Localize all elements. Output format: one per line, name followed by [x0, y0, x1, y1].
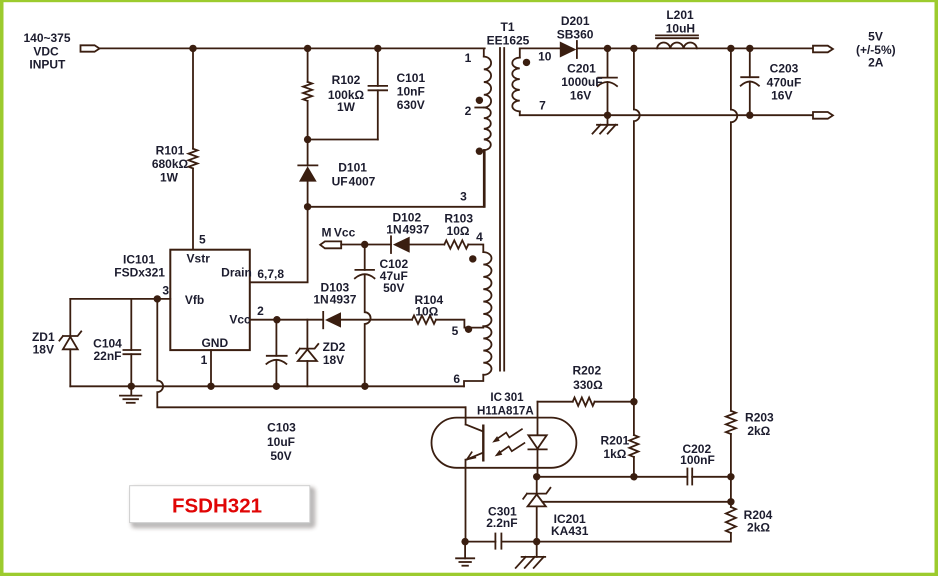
- svg-text:L201: L201: [666, 8, 694, 22]
- svg-text:H11A817A: H11A817A: [477, 404, 534, 417]
- svg-text:T1: T1: [500, 20, 514, 34]
- node: snubber junction: [304, 136, 311, 143]
- svg-text:5: 5: [199, 233, 206, 247]
- node: R202/R201 junction: [630, 398, 637, 405]
- svg-text:Drain: Drain: [221, 266, 252, 280]
- pin 5 label: [199, 233, 206, 247]
- pin 2 label: [465, 104, 472, 118]
- svg-text:ZD2: ZD2: [323, 340, 346, 354]
- optocoupler IC301 H11A817A body: [432, 418, 577, 468]
- ground symbol at opto emitter: [456, 542, 474, 566]
- svg-text:1000uF: 1000uF: [561, 75, 602, 89]
- aux winding polarity dot pin5: [465, 326, 472, 333]
- transformer T1 primary winding pins 1-2-3: [475, 48, 491, 206]
- svg-text:C101: C101: [396, 71, 425, 85]
- svg-text:FSDH321: FSDH321: [172, 495, 262, 518]
- svg-text:SB360: SB360: [557, 28, 594, 42]
- inductor L201 10uH: [656, 8, 698, 48]
- svg-text:GND: GND: [201, 336, 228, 350]
- opto LED: [528, 402, 546, 477]
- capacitor C104 22nF: [93, 299, 140, 386]
- diode D201 SB360: [557, 14, 594, 58]
- shunt regulator IC201 KA431: [523, 477, 589, 542]
- ground symbol at C201 (chassis style): [593, 115, 618, 133]
- zener diode ZD2 18V: [296, 320, 345, 387]
- svg-text:Vcc: Vcc: [229, 313, 251, 327]
- wire: IC101 GND pin 1 to rail: [210, 350, 212, 386]
- zener diode ZD1 18V: [32, 299, 81, 386]
- wire: snubber bottom R102-C101: [308, 139, 378, 141]
- wire: secondary top to D201: [520, 47, 560, 49]
- wire: compensation line (LED cathode to C202): [538, 476, 688, 478]
- svg-text:3: 3: [460, 190, 467, 204]
- svg-text:1kΩ: 1kΩ: [603, 447, 626, 461]
- svg-text:EE1625: EE1625: [487, 34, 530, 48]
- input label 140~375 VDC INPUT: [23, 31, 70, 72]
- wire: main HV rail: [100, 47, 485, 49]
- node: LED cathode junction: [533, 473, 540, 480]
- label C103 10uF 50V: [267, 421, 296, 464]
- svg-text:C203: C203: [770, 62, 799, 76]
- node: opto emitter ground junction: [461, 538, 468, 545]
- svg-text:16V: 16V: [570, 89, 591, 103]
- svg-text:2: 2: [465, 104, 472, 118]
- wire: Vfb feedback line down to optocoupler (with hop): [157, 299, 465, 407]
- capacitor C202 100nF: [680, 442, 731, 485]
- resistor R102 100k 1W: [303, 48, 364, 139]
- svg-text:C201: C201: [567, 62, 596, 76]
- capacitor C201 1000uF 16V: [561, 48, 617, 115]
- node: R203 top junction: [727, 45, 734, 52]
- pin 6,7,8 label: [257, 267, 284, 281]
- svg-text:16V: 16V: [771, 89, 792, 103]
- node: C203 bottom junction: [746, 112, 753, 119]
- pin 3 label: [162, 284, 169, 298]
- diode D103 1N4937: [313, 280, 412, 328]
- pin 7 label: [539, 99, 546, 113]
- node: C201 bottom junction: [604, 112, 611, 119]
- node: rail junction at R102: [304, 45, 311, 52]
- svg-text:D101: D101: [338, 161, 367, 175]
- svg-text:10nF: 10nF: [397, 85, 425, 99]
- svg-text:140~375: 140~375: [23, 31, 70, 45]
- svg-text:1W: 1W: [160, 171, 179, 185]
- ground symbol below C104: [120, 386, 141, 403]
- svg-text:C103: C103: [267, 421, 296, 435]
- pin 4 label: [476, 230, 483, 244]
- pin 1 label: [201, 353, 208, 367]
- svg-text:50V: 50V: [270, 449, 291, 463]
- wire: KA431 reference line: [543, 501, 731, 503]
- svg-text:630V: 630V: [397, 98, 425, 112]
- diode D101 UF4007: [298, 140, 375, 207]
- ground symbol at KA431 (chassis style): [516, 542, 546, 568]
- svg-text:10Ω: 10Ω: [415, 305, 438, 319]
- wire: Vfb line from IC to left: [70, 298, 170, 300]
- node: Vcc junction at C103: [273, 316, 280, 323]
- svg-text:7: 7: [539, 99, 546, 113]
- svg-text:Vfb: Vfb: [185, 293, 204, 307]
- svg-text:IC 301: IC 301: [490, 391, 524, 404]
- svg-text:1N 4937: 1N 4937: [313, 293, 356, 307]
- node: C104 ground junction: [128, 383, 135, 390]
- wire: divider line from output node (x=731) with hop: [731, 48, 737, 410]
- svg-text:470uF: 470uF: [767, 75, 802, 89]
- resistor R201 1k: [601, 402, 639, 477]
- node: pin3/drain node: [304, 203, 311, 210]
- resistor R204 2k: [537, 502, 773, 542]
- svg-text:R102: R102: [332, 73, 361, 87]
- node: rail junction at R101: [189, 45, 196, 52]
- capacitor C301 2.2nF: [465, 504, 537, 548]
- svg-text:2A: 2A: [868, 56, 884, 70]
- wire: feedback line from output node (x=634) with hop: [634, 48, 640, 401]
- node: KA431 anode junction: [533, 538, 540, 545]
- node: GND pin junction: [207, 383, 214, 390]
- transformer pin 3 label: [460, 190, 467, 204]
- pin 5 label: [452, 324, 459, 338]
- svg-text:UF 4007: UF 4007: [332, 175, 376, 189]
- svg-text:R202: R202: [572, 364, 601, 378]
- output label 5V (+/-5%) 2A: [856, 29, 896, 69]
- svg-text:18V: 18V: [323, 353, 344, 367]
- primary polarity dot lower: [476, 148, 483, 155]
- wire: drain node to transformer pin 3: [308, 150, 485, 207]
- label IC101 FSDx321: [114, 253, 165, 280]
- input terminal connector: [81, 45, 100, 51]
- wire: Vcc line from IC pin 2: [250, 319, 323, 321]
- capacitor C102 47uF 50V: [355, 245, 409, 387]
- resistor R202 330 ohm: [538, 364, 634, 406]
- node: feedback tap junction: [630, 45, 637, 52]
- svg-text:R101: R101: [156, 144, 185, 158]
- primary polarity dot upper: [476, 97, 483, 104]
- svg-text:5: 5: [452, 324, 459, 338]
- opto light arrows: [492, 429, 524, 456]
- svg-text:4: 4: [476, 230, 483, 244]
- wire: analog ground rail (left): [70, 385, 464, 387]
- secondary polarity dot: [523, 59, 530, 66]
- capacitor C103 10uF 50V (Vcc bypass): [266, 320, 286, 387]
- wire: drain node down to IC101 Drain pin 6,7,8: [250, 207, 308, 282]
- M Vcc terminal connector: [320, 226, 355, 249]
- svg-text:100nF: 100nF: [680, 453, 715, 467]
- svg-text:22nF: 22nF: [93, 349, 121, 363]
- svg-text:3: 3: [162, 284, 169, 298]
- wire: R203-R204 divider segment: [730, 477, 732, 502]
- svg-text:FSDx321: FSDx321: [114, 266, 165, 280]
- node: C103 ground junction: [273, 383, 280, 390]
- pin 10 label: [538, 50, 552, 64]
- svg-text:1N 4937: 1N 4937: [386, 223, 429, 237]
- svg-text:18V: 18V: [33, 343, 54, 357]
- svg-text:1W: 1W: [337, 100, 356, 114]
- pin 1 label: [465, 51, 472, 65]
- diode D102 1N4937: [386, 211, 444, 254]
- pin 2 label: [257, 304, 264, 318]
- node: divider reference junction: [727, 498, 734, 505]
- capacitor C203 470uF 16V: [741, 48, 802, 115]
- svg-text:10uH: 10uH: [666, 22, 695, 36]
- svg-text:2kΩ: 2kΩ: [747, 521, 770, 535]
- pin 6 label: [453, 372, 460, 386]
- node: C203 top junction: [746, 45, 753, 52]
- output terminal connector -: [813, 112, 833, 119]
- svg-text:INPUT: INPUT: [29, 58, 66, 72]
- svg-text:680kΩ: 680kΩ: [152, 157, 189, 171]
- svg-text:6: 6: [453, 372, 460, 386]
- capacitor C101 10nF 630V: [369, 48, 426, 139]
- svg-text:VDC: VDC: [33, 45, 59, 59]
- svg-text:10: 10: [538, 50, 552, 64]
- label IC 301 H11A817A: [477, 391, 534, 417]
- FSDH321 red part label box: [130, 486, 314, 527]
- resistor R104 10 ohm: [412, 293, 483, 328]
- resistor R203 2k: [726, 410, 774, 477]
- svg-text:50V: 50V: [383, 281, 404, 295]
- transformer secondary winding pins 10-7: [512, 48, 520, 115]
- svg-text:M Vcc: M Vcc: [322, 226, 356, 240]
- aux winding polarity dot pin4: [469, 255, 476, 262]
- node: rail junction at C101: [374, 45, 381, 52]
- resistor R101 680k 1W: [152, 48, 198, 249]
- opto phototransistor: [466, 407, 484, 541]
- svg-text:2kΩ: 2kΩ: [747, 424, 770, 438]
- node: C102 top junction: [361, 241, 368, 248]
- node: C102 ground junction: [361, 383, 368, 390]
- svg-text:10uF: 10uF: [267, 435, 295, 449]
- transformer auxiliary winding pins 4-5-6: [464, 252, 492, 386]
- transformer T1 EE1625 label: [487, 20, 530, 48]
- svg-text:10Ω: 10Ω: [447, 224, 470, 238]
- node: Vfb junction: [154, 295, 161, 302]
- wire: secondary output top rail: [577, 47, 813, 49]
- svg-text:IC101: IC101: [123, 253, 155, 267]
- node: R201 bottom junction: [630, 473, 637, 480]
- svg-text:2: 2: [257, 304, 264, 318]
- svg-text:5V: 5V: [868, 29, 883, 43]
- svg-text:1: 1: [201, 353, 208, 367]
- svg-text:Vstr: Vstr: [187, 251, 211, 265]
- op-amp/controller IC101 FSDx321 box: [170, 250, 252, 350]
- node: C201 top junction: [604, 45, 611, 52]
- svg-text:KA431: KA431: [551, 524, 589, 538]
- svg-text:R201: R201: [601, 433, 630, 447]
- output terminal connector +: [813, 46, 833, 53]
- svg-text:1: 1: [465, 51, 472, 65]
- svg-text:R203: R203: [745, 410, 774, 424]
- svg-text:330Ω: 330Ω: [573, 378, 603, 392]
- wire: M Vcc to D102: [341, 244, 391, 246]
- svg-text:6,7,8: 6,7,8: [257, 267, 284, 281]
- svg-text:D201: D201: [561, 14, 590, 28]
- resistor R103 10 ohm: [444, 212, 483, 253]
- wire: secondary bottom rail pin7 to output: [520, 114, 813, 116]
- svg-text:2.2nF: 2.2nF: [486, 516, 517, 530]
- node: C202/R203 junction: [727, 473, 734, 480]
- transformer core lines: [500, 48, 504, 371]
